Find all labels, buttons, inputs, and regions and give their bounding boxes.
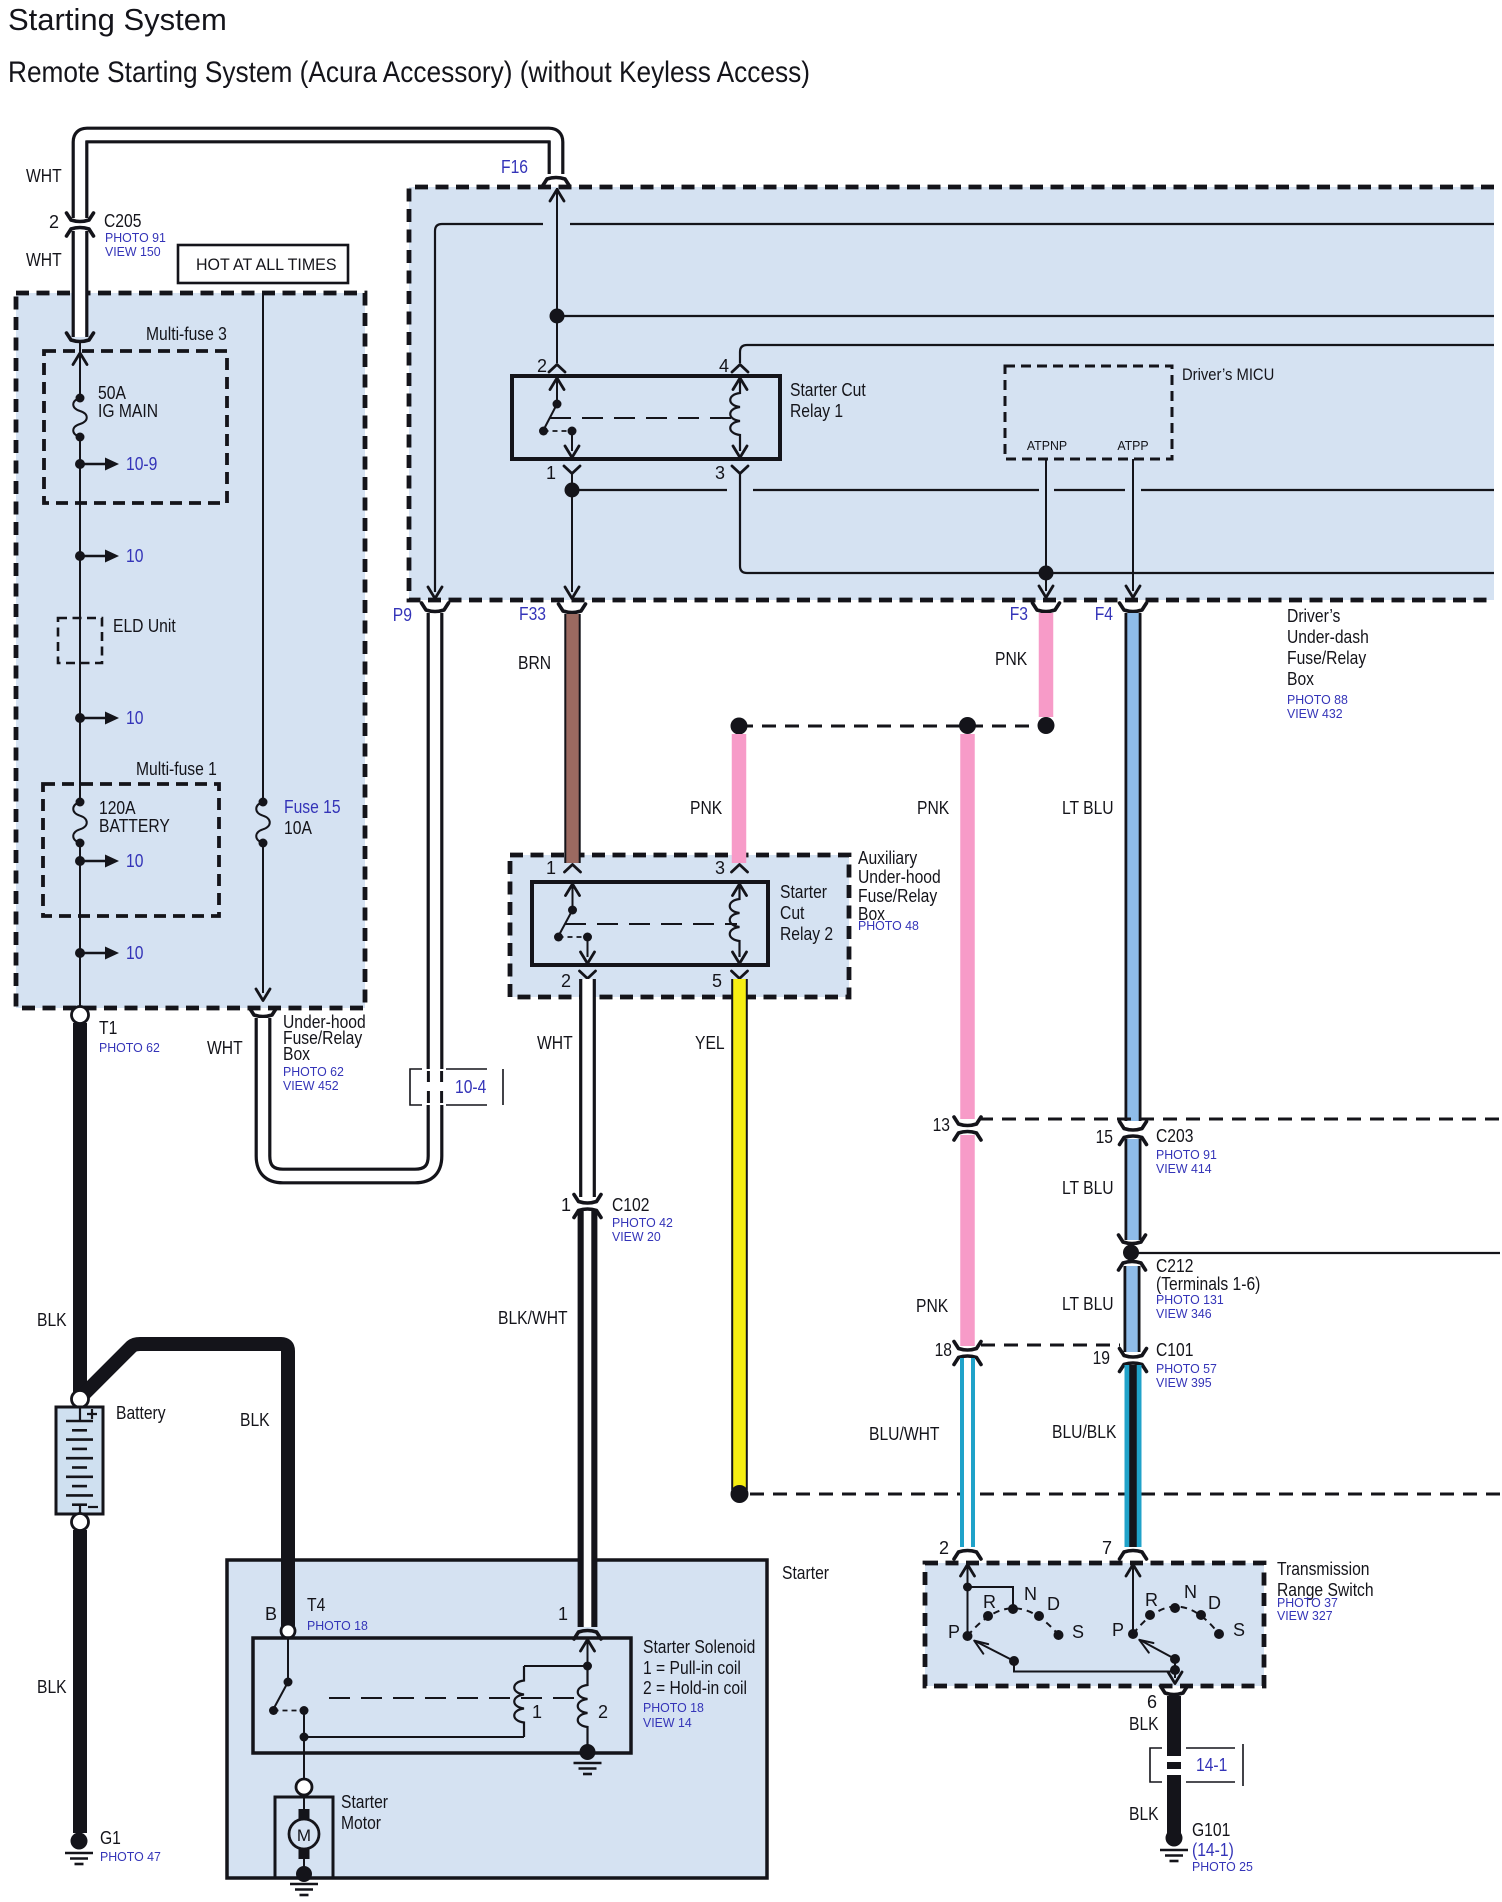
TRS left switch contact dots [963,1631,973,1641]
starter motor box [275,1797,333,1878]
svg-text:15: 15 [1096,1127,1113,1147]
svg-text:VIEW 346: VIEW 346 [1156,1306,1212,1321]
svg-text:Multi-fuse 3: Multi-fuse 3 [146,324,227,344]
dashed harness line at connector 18/19 [981,1344,1120,1347]
connector pin 1 of starter solenoid [574,1631,601,1640]
svg-text:120A: 120A [99,798,136,818]
TRS right switch dashed arc [1133,1607,1219,1635]
svg-text:PHOTO 18: PHOTO 18 [307,1618,368,1633]
svg-text:1: 1 [532,1702,542,1722]
svg-text:Transmission: Transmission [1277,1559,1370,1579]
svg-text:Starter: Starter [782,1563,829,1583]
relay 2 actuation dashed link [565,923,737,925]
ground G1 [71,1833,88,1850]
svg-text:Starting System: Starting System [8,2,227,37]
svg-text:PHOTO 47: PHOTO 47 [100,1849,161,1864]
svg-text:Fuse/Relay: Fuse/Relay [858,886,937,906]
svg-text:Relay 2: Relay 2 [780,924,833,944]
svg-text:PHOTO 62: PHOTO 62 [99,1040,160,1055]
svg-text:S: S [1072,1622,1084,1642]
svg-text:N: N [1184,1582,1197,1602]
connector at under-hood box entry [67,333,94,342]
junction on F16 wire [550,309,565,324]
svg-text:Box: Box [1287,669,1314,689]
wire LT BLU from 15 to C212 [1125,1139,1142,1240]
svg-text:4: 4 [719,356,729,376]
svg-text:Battery: Battery [116,1403,166,1423]
junction dot right (from F3) [1038,717,1055,734]
svg-text:Starter: Starter [341,1792,388,1812]
svg-text:18: 18 [935,1340,952,1360]
wire PNK junction to connector 13 [960,734,975,1119]
wire F16 down to relay 1 pin 2 [556,188,558,363]
starter solenoid box [253,1638,631,1753]
connector F3 [1033,603,1060,612]
svg-text:P: P [1112,1620,1124,1640]
svg-text:Driver’s: Driver’s [1287,606,1340,626]
solenoid pull-in coil 1 [524,1665,588,1667]
svg-text:PHOTO 18: PHOTO 18 [643,1700,704,1715]
svg-text:BLK: BLK [1129,1714,1159,1734]
svg-text:VIEW 452: VIEW 452 [283,1078,339,1093]
svg-text:LT BLU: LT BLU [1062,1178,1114,1198]
svg-text:PNK: PNK [917,798,949,818]
svg-text:C212: C212 [1156,1256,1193,1276]
connector pin 1 of relay 2 [565,865,581,873]
dashed crossover link at y=726 [739,725,1046,728]
svg-text:VIEW 14: VIEW 14 [643,1715,692,1730]
wire ATPP to F4 [1132,459,1134,591]
svg-text:Box: Box [283,1044,310,1064]
svg-text:F3: F3 [1010,604,1028,624]
wire from F16 junction to right edge [557,315,1494,317]
svg-text:BLK: BLK [37,1310,67,1330]
branch arrow 10 (inside multi-fuse 1) [75,856,85,866]
solenoid pin 1 wire with arrow [581,1640,595,1652]
relay 2 switch [566,884,580,896]
svg-text:10: 10 [126,943,143,963]
svg-text:Driver’s MICU: Driver’s MICU [1182,365,1274,384]
ELD unit box [58,618,102,663]
connector 15 [1120,1122,1147,1131]
relay 1 coil [733,378,747,390]
svg-text:10A: 10A [284,818,312,838]
svg-text:7: 7 [1102,1538,1112,1558]
connector 10-4 break [424,1069,446,1105]
driver's under-dash fuse/relay box (top right, dashed) [409,187,1494,600]
multi-fuse 3 box (dashed) [44,351,227,503]
connector 19 [1120,1349,1147,1358]
junction dot middle (to connector 13) [959,717,976,734]
svg-text:VIEW 395: VIEW 395 [1156,1375,1212,1390]
svg-text:BLK/WHT: BLK/WHT [498,1308,568,1328]
svg-text:R: R [983,1592,996,1612]
wire LT BLU from C212 to 19 [1124,1266,1141,1352]
svg-text:Starter Solenoid: Starter Solenoid [643,1637,755,1657]
svg-text:Starter: Starter [780,882,827,902]
svg-text:C101: C101 [1156,1340,1193,1360]
wire into multi-fuse 3 with arrow [79,343,81,398]
svg-text:G101: G101 [1192,1820,1230,1840]
connector 18 [954,1342,981,1351]
svg-text:PHOTO 57: PHOTO 57 [1156,1361,1217,1376]
svg-text:5: 5 [712,971,722,991]
svg-text:3: 3 [715,463,725,483]
connector F4 [1120,603,1147,612]
svg-text:R: R [1145,1590,1158,1610]
fuse 120A BATTERY [73,802,87,843]
svg-text:2 = Hold-in coil: 2 = Hold-in coil [643,1678,747,1698]
relay 1 switch [550,378,564,390]
svg-text:6: 6 [1147,1692,1157,1712]
wire from C212 junction to right edge [1131,1252,1500,1254]
TRS left switch output to common [1014,1661,1175,1672]
fuse 50A IG MAIN [73,398,87,437]
connector pin 3 of relay 1 / wire down then right [732,466,748,474]
svg-text:PNK: PNK [995,649,1027,669]
wire BLK from battery negative to G1 [73,1530,87,1833]
wire from pin 1 junction to right edge (gaps at crossings) [572,489,1494,491]
connector F16 [543,178,570,187]
svg-text:Motor: Motor [341,1813,381,1833]
junction dot left (to relay 2 pin 3) [731,718,748,735]
svg-text:1: 1 [558,1604,568,1624]
battery [72,1391,89,1408]
svg-text:10-4: 10-4 [455,1077,486,1097]
svg-text:Cut: Cut [780,903,804,923]
svg-text:Fuse 15: Fuse 15 [284,797,341,817]
svg-text:YEL: YEL [695,1033,725,1053]
svg-text:Multi-fuse 1: Multi-fuse 1 [136,759,217,779]
wire WHT from C205 up and over to F16 [80,135,556,218]
connector P9 [422,603,449,612]
svg-text:F16: F16 [501,157,528,177]
wire PNK from 13 to 18 [960,1135,975,1346]
svg-text:(14-1): (14-1) [1192,1840,1234,1860]
TRS right switch contact dots [1128,1629,1138,1639]
svg-text:F33: F33 [519,604,546,624]
svg-text:PHOTO 25: PHOTO 25 [1192,1859,1253,1874]
TRS right switch: pin 7 wire to P contact [1126,1565,1140,1577]
connector F33 [559,604,586,613]
solenoid actuation dashed link [329,1697,578,1699]
svg-text:VIEW 20: VIEW 20 [612,1229,661,1244]
svg-text:ELD Unit: ELD Unit [113,616,176,636]
svg-text:PHOTO 91: PHOTO 91 [1156,1147,1217,1162]
wire BRN from F33 to relay 2 pin 1 [564,614,580,863]
connector pin 5 of relay 2 / wire YEL down [732,971,748,979]
svg-text:BLK: BLK [1129,1804,1159,1824]
svg-text:Starter Cut: Starter Cut [790,380,866,400]
connector pin 2 of relay 1 [549,365,565,373]
wire PNK junction to relay 2 pin 3 [732,734,747,863]
fuse 15 10A [256,802,270,843]
terminal T1 [72,1007,89,1024]
connector pin 3 of relay 2 [732,865,748,873]
multi-fuse 1 box (dashed) [43,784,219,916]
svg-text:B: B [265,1604,277,1624]
svg-text:Under-hood: Under-hood [858,867,941,887]
wire WHT from under-hood box down and around to 10-4/P9 [263,613,435,1176]
svg-text:T4: T4 [307,1595,325,1615]
svg-text:10-9: 10-9 [126,454,157,474]
wire 50A fuse to multi-fuse 1 [79,437,81,802]
under-hood fuse/relay box (left, dashed) [16,293,365,1008]
connector C102 [574,1195,601,1204]
wire BLK/WHT from C102 to starter solenoid [578,1211,598,1627]
svg-text:P9: P9 [393,605,412,625]
svg-text:Fuse/Relay: Fuse/Relay [1287,648,1366,668]
svg-text:PHOTO 48: PHOTO 48 [858,918,919,933]
wire BLK from battery positive to starter T4 [84,1344,288,1626]
svg-text:IG MAIN: IG MAIN [98,401,158,421]
wire BLK from TRS pin 6 to G101 [1167,1696,1181,1838]
connector 13 [954,1117,981,1126]
wire BLK from T1 to battery positive [73,1023,87,1392]
svg-text:1: 1 [546,858,556,878]
svg-text:PHOTO 62: PHOTO 62 [283,1064,344,1079]
connector pin 4 of relay 1 [732,365,748,373]
svg-text:BLK: BLK [37,1677,67,1697]
connector 14-1 break [1165,1756,1183,1762]
svg-text:ATPNP: ATPNP [1027,438,1067,453]
TRS common junction [1170,1665,1180,1675]
dashed harness line at connector 13/15 [979,1118,1500,1121]
svg-text:19: 19 [1093,1348,1110,1368]
svg-text:C203: C203 [1156,1126,1193,1146]
svg-text:3: 3 [715,858,725,878]
connector at TRS pin 7 [1120,1551,1147,1560]
starter motor ground [296,1866,312,1882]
wire WHT from C205 into under-hood box [72,231,89,337]
svg-text:VIEW 150: VIEW 150 [105,244,161,259]
TRS left switch dashed arc [968,1608,1059,1636]
solenoid hold-in coil 2 [578,1666,588,1746]
svg-text:(Terminals 1-6): (Terminals 1-6) [1156,1274,1260,1294]
svg-text:D: D [1208,1593,1221,1613]
svg-text:VIEW 327: VIEW 327 [1277,1608,1333,1623]
svg-text:2: 2 [537,356,547,376]
connector pin 2 of relay 2 / wire WHT down to C102 [580,971,596,979]
junction on pin 1 wire [565,483,580,498]
svg-text:BLU/WHT: BLU/WHT [869,1424,940,1444]
starter motor terminal [296,1779,312,1795]
svg-text:VIEW 432: VIEW 432 [1287,706,1343,721]
svg-text:PNK: PNK [916,1296,948,1316]
wire fuse 15 to box bottom with arrow [262,843,264,993]
svg-text:HOT AT ALL TIMES: HOT AT ALL TIMES [196,256,337,274]
junction where ATPNP meets relay 1 pin 3 line [1039,566,1054,581]
svg-text:LT BLU: LT BLU [1062,798,1114,818]
svg-text:PHOTO 91: PHOTO 91 [105,230,166,245]
auxiliary under-hood fuse/relay box (dashed) [510,855,849,997]
connector pin 1 of relay 1 / wire down to F33 [564,466,580,474]
svg-text:D: D [1047,1594,1060,1614]
svg-text:WHT: WHT [537,1033,573,1053]
starter box (solid) [227,1560,767,1878]
svg-text:M: M [297,1826,311,1845]
svg-text:C205: C205 [104,211,141,231]
label: HOT AT ALL TIMES [178,245,348,283]
svg-text:10: 10 [126,851,143,871]
svg-text:F4: F4 [1095,604,1113,624]
TRS right switch wiper arm [1140,1640,1175,1659]
dashed line from YEL wire end to right edge [750,1493,1500,1496]
svg-text:2: 2 [49,212,59,232]
svg-text:PNK: PNK [690,798,722,818]
svg-text:BRN: BRN [518,653,551,673]
battery + sign [87,1409,97,1419]
svg-text:G1: G1 [100,1828,121,1848]
svg-text:C102: C102 [612,1195,649,1215]
svg-text:10: 10 [126,546,143,566]
svg-text:P: P [948,1622,960,1642]
svg-text:S: S [1233,1620,1245,1640]
connector at fuse 15 exit [250,1008,277,1017]
branch arrow 10 (second) [75,713,85,723]
svg-text:PHOTO 131: PHOTO 131 [1156,1292,1224,1307]
TRS left switch wiper arm [975,1641,1014,1661]
svg-text:Relay 1: Relay 1 [790,401,843,421]
svg-text:LT BLU: LT BLU [1062,1294,1114,1314]
svg-text:WHT: WHT [26,250,62,270]
svg-text:BATTERY: BATTERY [99,816,170,836]
starter motor symbol [303,1795,305,1812]
wire from P9 up and right along box top [435,224,1494,592]
svg-text:N: N [1024,1584,1037,1604]
relay 2 coil [733,884,747,896]
starter cut relay 2 box [532,882,768,965]
branch arrow 10-9 [75,459,85,469]
wire 120A fuse to T1 [79,843,81,1006]
branch arrow 10 (first) [75,551,85,561]
connector at TRS pin 2 [954,1551,981,1560]
svg-text:10: 10 [126,708,143,728]
svg-text:2: 2 [561,971,571,991]
solenoid output to starter motor [304,1736,524,1738]
solenoid coil ground [580,1744,596,1760]
wire LT BLU from F4 to connector 15 [1125,613,1142,1121]
svg-text:PHOTO 88: PHOTO 88 [1287,692,1348,707]
svg-text:BLK: BLK [240,1410,270,1430]
ground G101 [1166,1830,1183,1847]
svg-text:T1: T1 [99,1018,117,1038]
wire ATPNP to F3 [1045,459,1047,591]
connector C212 with junction [1119,1235,1146,1244]
relay 1 actuation dashed link [550,417,737,419]
svg-text:14-1: 14-1 [1196,1755,1227,1775]
svg-text:VIEW 414: VIEW 414 [1156,1161,1212,1176]
svg-text:50A: 50A [98,383,126,403]
solenoid switch from T4 [287,1638,289,1682]
svg-text:BLU/BLK: BLU/BLK [1052,1422,1116,1442]
svg-text:Remote Starting System (Acura: Remote Starting System (Acura Accessory)… [8,56,810,89]
svg-text:2: 2 [598,1702,608,1722]
battery - sign [88,1506,98,1508]
svg-text:1 = Pull-in coil: 1 = Pull-in coil [643,1658,741,1678]
transmission range switch box (dashed) [925,1563,1264,1686]
svg-text:PHOTO 42: PHOTO 42 [612,1215,673,1230]
terminal T4 cap [281,1624,295,1638]
branch arrow 10 (lowest) [75,948,85,958]
TRS left switch: pin 2 wire to N contact [961,1565,975,1577]
terminal dot at end of YEL wire [731,1485,749,1503]
svg-text:2: 2 [939,1538,949,1558]
connector at TRS pin 6 [1161,1686,1188,1695]
starter cut relay 1 box [512,376,780,459]
driver's MICU box (dashed) [1005,366,1172,459]
svg-text:Auxiliary: Auxiliary [858,848,917,868]
wire PNK from F3 to junction [1039,613,1054,717]
wire BLU/BLK from 19 to transmission range switch [1125,1365,1142,1547]
svg-text:WHT: WHT [207,1038,243,1058]
svg-text:Under-dash: Under-dash [1287,627,1369,647]
svg-text:1: 1 [546,463,556,483]
connector C205 [67,213,94,222]
svg-text:1: 1 [561,1195,571,1215]
svg-text:ATPP: ATPP [1117,438,1148,453]
svg-text:WHT: WHT [26,166,62,186]
wire BLU/WHT from 18 to transmission range switch [960,1358,975,1547]
svg-text:13: 13 [933,1115,950,1135]
wire fuse 15 feed from box top [262,293,264,802]
wire relay 1 pin 4 up and right [740,345,1494,363]
